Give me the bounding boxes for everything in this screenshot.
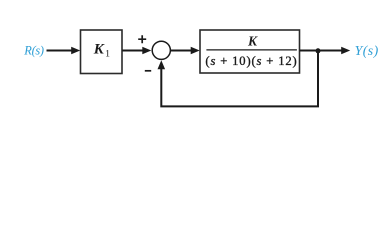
summing junction: [152, 41, 170, 59]
block plant: [200, 30, 300, 73]
svg-text:Y(s): Y(s): [355, 43, 379, 59]
svg-text:R(s): R(s): [23, 44, 44, 58]
minus sign: [145, 70, 151, 72]
output wire to Y(s): [300, 47, 351, 55]
wire R(s) to block K1: [47, 47, 81, 55]
feedback wire: [158, 51, 319, 107]
plus sign: [138, 35, 146, 43]
svg-text:K: K: [247, 34, 258, 49]
junction dot on output wire: [316, 48, 321, 53]
wire K1 to summing junction: [122, 47, 151, 55]
wire summing junction to plant block: [171, 47, 200, 55]
block K1: [81, 30, 123, 74]
fraction bar: [206, 49, 297, 51]
svg-text:(s + 10)(s + 12): (s + 10)(s + 12): [205, 54, 297, 68]
